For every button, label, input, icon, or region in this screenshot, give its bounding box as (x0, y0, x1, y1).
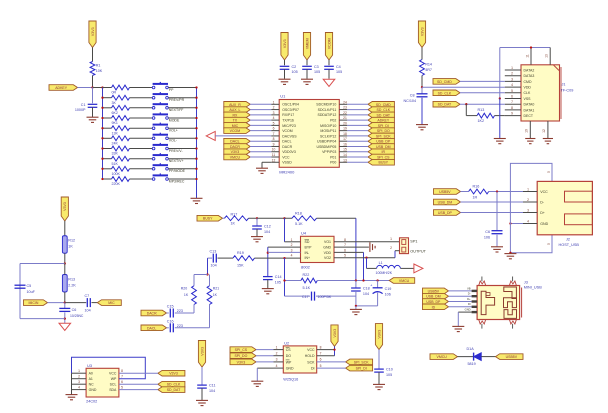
svg-text:13K: 13K (112, 131, 119, 135)
pin 2 host usb (523, 198, 537, 202)
svg-text:SD: SD (305, 240, 310, 244)
svg-text:DATA0: DATA0 (524, 103, 535, 107)
pin 18 SCLK/P12 (339, 132, 347, 136)
resistor R21 1K (207, 286, 219, 305)
pin 12 VSSD (271, 158, 279, 162)
svg-text:MISO/P10: MISO/P10 (320, 124, 336, 128)
svg-text:4: 4 (273, 116, 275, 120)
wire R to button NEXT/FF (130, 107, 153, 109)
wire mix node to R20 (194, 275, 208, 286)
junction IN- to C14 branch (267, 252, 269, 254)
svg-text:7: 7 (273, 132, 275, 136)
wire R to button MODE (130, 117, 153, 119)
svg-text:NEXT/FF: NEXT/FF (169, 108, 184, 112)
pin 7 DATA0 (505, 100, 521, 104)
pin 4 U2 (274, 364, 284, 368)
ground ladder rail (191, 198, 203, 203)
wire R to button NEXT/V+ (130, 158, 153, 160)
wire SD pin (285, 241, 301, 243)
net label SD_CLK (368, 107, 394, 113)
wire mic node to C5 branch (20, 264, 65, 319)
wire V3V3 to C2 (284, 60, 286, 65)
power flag V3V3 (375, 324, 382, 350)
net label MIC (97, 300, 121, 306)
pin 6 VDD (344, 248, 346, 252)
svg-text:DACVSS: DACVSS (282, 134, 297, 138)
power flag V3V3 (89, 21, 96, 48)
svg-text:5819: 5819 (468, 362, 476, 366)
svg-text:USB_DP: USB_DP (438, 211, 453, 215)
ground under C11 (196, 400, 208, 405)
diode D1A 5819 (467, 347, 482, 366)
resistor R1 (90, 62, 103, 76)
wire ADKEY label to node (78, 87, 93, 89)
svg-text:D+: D+ (467, 297, 471, 301)
svg-text:3: 3 (273, 111, 275, 115)
pin 1 SD (291, 238, 293, 242)
pin 24 SDCMD/P10 (339, 100, 347, 104)
svg-text:8: 8 (121, 369, 123, 373)
svg-text:SPI_DO: SPI_DO (234, 354, 247, 358)
svg-text:C16: C16 (167, 319, 174, 323)
svg-text:AUX_R: AUX_R (229, 103, 241, 107)
wire button NEXT/V+ to right rail (168, 158, 196, 160)
svg-text:5: 5 (320, 364, 322, 368)
wire node to C6 (64, 303, 66, 308)
wire pin 22 to SD_DAT (347, 114, 368, 116)
wire R19 to IN+ node (255, 257, 301, 259)
net label SD_DAT (433, 101, 460, 107)
junction shield top (530, 46, 532, 48)
capacitor C16 223 (167, 319, 183, 332)
capacitor C15 223 (167, 305, 183, 318)
wire rail to R key8 (103, 158, 112, 160)
wire DI to SPI_DI (317, 367, 346, 369)
wire pin 21 to ADKEY (347, 119, 368, 121)
svg-text:5: 5 (511, 89, 513, 93)
svg-text:SD_DAT: SD_DAT (377, 113, 391, 117)
svg-text:7: 7 (344, 243, 346, 247)
svg-text:9K1: 9K1 (112, 121, 118, 125)
wire button PP to right rail (168, 87, 196, 89)
svg-text:24K: 24K (112, 142, 119, 146)
svg-text:3: 3 (78, 380, 80, 384)
svg-text:VSSD: VSSD (282, 161, 292, 165)
wire host shield frame (510, 163, 552, 252)
junction host gnd (509, 222, 511, 224)
wire R to button PREV/V- (130, 148, 153, 150)
svg-text:5: 5 (344, 254, 346, 258)
svg-text:USB_DP: USB_DP (426, 300, 441, 304)
svg-text:6: 6 (121, 380, 123, 384)
power flag VMEM (303, 33, 310, 61)
svg-text:4R7: 4R7 (425, 68, 432, 72)
svg-text:W25Q16: W25Q16 (283, 378, 298, 382)
svg-text:VMCU: VMCU (230, 155, 241, 159)
net label SPI_DO (230, 353, 256, 359)
svg-text:3: 3 (291, 248, 293, 252)
wire shield pin 13 (545, 48, 551, 65)
svg-text:SPI_DI: SPI_DI (356, 367, 367, 371)
svg-text:18: 18 (343, 132, 347, 136)
svg-text:104: 104 (363, 292, 369, 296)
svg-text:DACR: DACR (230, 145, 240, 149)
svg-text:VCC: VCC (307, 348, 315, 352)
pin 3 host usb (523, 208, 537, 212)
op-amp U1 MP3 decoder MR2400 (279, 94, 339, 175)
svg-text:VMCU: VMCU (436, 355, 447, 359)
junction C19 node (376, 279, 378, 281)
push button PP/MODE (152, 163, 185, 173)
resistor 6K2 (key NEXT/FF) (112, 105, 130, 115)
svg-text:R13: R13 (478, 108, 485, 112)
svg-text:NC: NC (89, 383, 95, 387)
svg-text:33K: 33K (112, 152, 119, 156)
wire rail to R key5 (103, 127, 112, 129)
svg-text:TX: TX (233, 119, 238, 123)
svg-text:BUSY: BUSY (379, 161, 389, 165)
svg-text:0R: 0R (112, 91, 117, 95)
junction gnd rail (355, 305, 357, 307)
wire SPI_DO to pin 2 (256, 355, 274, 357)
push button MP3/REC (152, 173, 185, 183)
svg-text:USB_DM: USB_DM (438, 200, 453, 204)
pin 19 MOSI/P11 (339, 127, 347, 131)
svg-text:C2: C2 (292, 65, 297, 69)
junction VDD branch (362, 279, 364, 281)
power flag V3V3 (331, 325, 338, 347)
svg-text:8: 8 (344, 238, 346, 242)
svg-text:USBDP/P04: USBDP/P04 (317, 140, 336, 144)
svg-text:3: 3 (276, 358, 278, 362)
ground U2 (251, 381, 263, 386)
junction right rail (195, 178, 197, 180)
wire D1A anode to USB5V (481, 356, 495, 358)
junction right rail (195, 97, 197, 99)
net label IR (368, 149, 394, 155)
wire C10 to ground (378, 372, 380, 384)
svg-text:11: 11 (526, 54, 530, 58)
off-sheet connector DACVSS (206, 131, 215, 140)
pin 4 VDD (505, 83, 521, 87)
push button MODE (152, 112, 180, 122)
net label SD_CLK (158, 381, 185, 387)
svg-text:5: 5 (547, 171, 551, 173)
svg-text:IN+: IN+ (305, 256, 311, 260)
net label ADKEY (49, 85, 78, 91)
wire pin 24 to SD_CMD (347, 103, 368, 105)
svg-text:220K: 220K (112, 182, 121, 186)
svg-text:MODE: MODE (169, 118, 180, 122)
svg-text:2: 2 (276, 352, 278, 356)
svg-text:1R: 1R (473, 195, 478, 199)
off-sheet connector speaker out (414, 264, 423, 273)
wire pin 15 to IR (347, 151, 368, 153)
svg-text:15K: 15K (237, 263, 244, 267)
svg-text:WP: WP (111, 377, 117, 381)
wire pin 17 to USB_DP (347, 140, 368, 142)
net label BUSY (197, 215, 223, 221)
svg-text:DACR: DACR (282, 145, 292, 149)
net label V3V3 (224, 149, 250, 155)
wire button MP3/REC to right rail (168, 178, 196, 180)
svg-text:6: 6 (511, 95, 513, 99)
junction right rail (195, 117, 197, 119)
svg-text:2: 2 (291, 243, 293, 247)
svg-text:VSS: VSS (524, 97, 532, 101)
junction SD_DAT / R13 (465, 103, 467, 105)
svg-text:5.1K: 5.1K (295, 222, 303, 226)
pin 3 CMD (505, 77, 521, 81)
svg-text:BYP: BYP (305, 246, 313, 250)
wire AUX_R to pin 1 (250, 103, 271, 105)
svg-text:7: 7 (320, 352, 322, 356)
wire R16 to VCC pin (489, 191, 538, 193)
svg-text:10/25NC: 10/25NC (70, 314, 84, 318)
svg-text:CS: CS (286, 348, 292, 352)
power flag V3V3 (281, 33, 288, 61)
svg-text:100K: 100K (112, 172, 121, 176)
pin 5 CLK (505, 89, 521, 93)
svg-text:GND: GND (465, 308, 471, 312)
pin 16 USBDM/P05 (339, 142, 347, 146)
svg-text:3: 3 (527, 208, 529, 212)
svg-text:1: 1 (527, 187, 529, 191)
resistor R12 1K (62, 236, 75, 254)
wire frame left vertical (499, 48, 501, 99)
svg-text:C19: C19 (385, 287, 392, 291)
wire pin 23 to SD_CLK (347, 109, 368, 111)
svg-text:2.2K: 2.2K (68, 283, 76, 287)
svg-text:OSC1/P04: OSC1/P04 (282, 103, 299, 107)
ground under C10 (373, 384, 385, 389)
push button NEXT/V+ (152, 153, 183, 163)
pin 8 VO1 (344, 238, 346, 242)
wire button NEXT/FF to right rail (168, 107, 196, 109)
svg-text:8: 8 (511, 106, 513, 110)
ground host shield (504, 254, 516, 259)
ground under C3 (301, 79, 313, 84)
net label USB5V (423, 288, 449, 294)
svg-text:VO1: VO1 (324, 240, 331, 244)
net label ADKEY (368, 117, 394, 123)
wire J3 GND to ground (458, 312, 471, 326)
net label ID (423, 304, 449, 310)
junction left rail (101, 168, 103, 170)
svg-text:U3: U3 (87, 364, 92, 368)
wire VDD pin branch (334, 252, 364, 280)
wire AUX_L to pin 2 (250, 109, 271, 111)
wire R to button MP3/REC (130, 178, 153, 180)
svg-text:14: 14 (343, 153, 347, 157)
wire C6 to ground (496, 235, 498, 247)
wire DACR to C15 (167, 312, 169, 314)
svg-text:13: 13 (545, 54, 549, 58)
resistor R19 15K (233, 251, 255, 267)
wire DACL to pin 8 (250, 140, 271, 142)
net label USB_DM (434, 199, 461, 205)
pin 3 IN- (291, 248, 293, 252)
svg-text:GND: GND (540, 222, 548, 226)
capacitor C18 104 (355, 281, 357, 288)
svg-text:V3V3: V3V3 (91, 27, 95, 36)
svg-text:C4: C4 (336, 65, 341, 69)
svg-text:22: 22 (343, 111, 347, 115)
svg-text:V3V3: V3V3 (237, 360, 246, 364)
ground under C1 (87, 117, 99, 122)
resistor 9K1 (key MODE) (112, 116, 130, 126)
wire VO2 pin (334, 251, 395, 258)
svg-text:12: 12 (542, 129, 546, 133)
wire R13 left (466, 115, 477, 117)
svg-text:4: 4 (527, 219, 529, 223)
capacitor C4 105 (324, 65, 342, 74)
ground mini usb (452, 326, 464, 331)
capacitor C14 (263, 275, 282, 284)
pin 2 U2 (274, 352, 284, 356)
svg-text:C15: C15 (167, 305, 174, 309)
net label SD_DAT (158, 387, 185, 393)
net label DACL (224, 138, 250, 144)
op-amp U2 W25Q16 SPI flash (283, 342, 316, 382)
pin 11 VCC (271, 153, 279, 157)
svg-text:RX/P17: RX/P17 (282, 113, 294, 117)
svg-text:J2: J2 (566, 238, 570, 242)
net label VMCU (224, 154, 250, 160)
wire ID to J3 pad (449, 306, 472, 308)
junction left rail (101, 137, 103, 139)
svg-text:6: 6 (320, 358, 322, 362)
wire U3 address bus to ground (71, 373, 73, 394)
capacitor C13 104 (210, 249, 217, 267)
pin 5 U3 (121, 385, 123, 389)
svg-text:A1: A1 (89, 377, 93, 381)
wire flag to C11 (201, 367, 203, 385)
svg-text:SDDAT/P12: SDDAT/P12 (317, 113, 336, 117)
wire shield pin 10 (524, 121, 530, 139)
net label DACR (141, 310, 167, 316)
net label SPI_SCK (368, 133, 394, 139)
capacitor C19 106 polarized (370, 281, 391, 306)
junction left rail (101, 117, 103, 119)
svg-text:R1: R1 (96, 63, 101, 67)
svg-text:U4: U4 (301, 231, 307, 236)
wire R to button PP/MODE (130, 168, 153, 170)
svg-text:P00: P00 (330, 161, 336, 165)
svg-text:4: 4 (511, 83, 513, 87)
svg-text:13: 13 (343, 158, 347, 162)
svg-text:5: 5 (121, 385, 123, 389)
svg-text:6: 6 (344, 248, 346, 252)
pin 22 SDDAT/P12 (339, 111, 347, 115)
wire R to button VOL+ (130, 127, 153, 129)
pin 7 U2 (320, 352, 322, 356)
svg-text:106: 106 (484, 236, 490, 240)
svg-text:10: 10 (272, 148, 276, 152)
pin 15 VPP/P03 (339, 148, 347, 152)
net label V3V3 (230, 359, 256, 365)
svg-text:9: 9 (273, 142, 275, 146)
wire rail to R key6 (103, 137, 112, 139)
svg-text:C3: C3 (314, 65, 319, 69)
wire VMCU to D1A cathode (458, 356, 474, 358)
resistor 33K (key PREV/V-) (112, 146, 130, 156)
pin 1 OSC1/P04 (271, 100, 279, 104)
svg-text:51K: 51K (112, 162, 119, 166)
wire C6 to ground (64, 312, 66, 323)
svg-text:1K2: 1K2 (478, 119, 485, 123)
net label SD_DAT (368, 112, 394, 118)
power ground under C4 (323, 79, 335, 86)
wire button PREV/V- to right rail (168, 148, 196, 150)
svg-text:2: 2 (511, 72, 513, 76)
svg-text:SPI_CS: SPI_CS (377, 155, 390, 159)
svg-text:C10: C10 (386, 368, 393, 372)
wire flag to C10 (378, 350, 380, 369)
wire V3V3 to pin 10 (250, 151, 271, 153)
wire C15 to R20 (175, 305, 194, 314)
wire C13 left branch (208, 258, 213, 274)
wire R12 to mic node (64, 253, 66, 263)
svg-text:VDD0V3: VDD0V3 (282, 150, 296, 154)
resistor R22 5.1K (301, 273, 317, 290)
svg-text:C6: C6 (485, 230, 490, 234)
pin 6 VSS (505, 95, 521, 99)
svg-text:R18: R18 (295, 211, 302, 215)
wire VDD node to TF VDD pin (422, 86, 505, 88)
pin 8 U3 (121, 369, 123, 373)
ground under C8 (416, 125, 428, 130)
svg-text:1: 1 (390, 237, 392, 241)
junction right rail (195, 147, 197, 149)
wire pin 13 to BUSY (347, 161, 368, 163)
junction R22 node (283, 279, 285, 281)
svg-text:J3: J3 (524, 280, 528, 284)
ground under C2 (279, 79, 291, 84)
wire pin 20 to SPI_DI (347, 124, 368, 126)
svg-text:L1: L1 (379, 261, 383, 265)
ground shield 10 (525, 139, 535, 144)
wire node to R13 (64, 264, 66, 275)
svg-text:C13: C13 (210, 249, 217, 253)
svg-text:VPP/P03: VPP/P03 (322, 150, 336, 154)
resistor 100K (key PP/MODE) (112, 166, 130, 176)
power flag V3V3 (418, 21, 425, 48)
junction left rail (101, 127, 103, 129)
svg-text:6: 6 (273, 127, 275, 131)
wire C14 to ground (267, 280, 269, 289)
op-amp U3 24C02 EEPROM (86, 364, 119, 403)
pin 2 DATA3 (505, 72, 521, 76)
resistor 220K (key MP3/REC) (112, 177, 130, 187)
svg-text:DO: DO (286, 354, 292, 358)
svg-text:R14: R14 (425, 62, 432, 66)
pin 21 P02 (339, 116, 347, 120)
net label SPI_DI (368, 123, 394, 129)
wire TX to pin 4 (250, 119, 271, 121)
pin 8 DATA1 (505, 106, 521, 110)
wire C18 to gnd rail (355, 291, 357, 306)
wire IN- pin (268, 251, 301, 253)
wire R to button PREV/PR (130, 97, 153, 99)
junction right rail (195, 127, 197, 129)
resistor R13 2.2K (mic) (62, 275, 76, 293)
svg-text:MINI_USB: MINI_USB (524, 285, 542, 289)
wire shield pin 12 (542, 121, 548, 139)
junction C18 node (355, 279, 357, 281)
svg-text:USB_DP: USB_DP (376, 140, 391, 144)
ground U1 VSSD (256, 168, 268, 173)
